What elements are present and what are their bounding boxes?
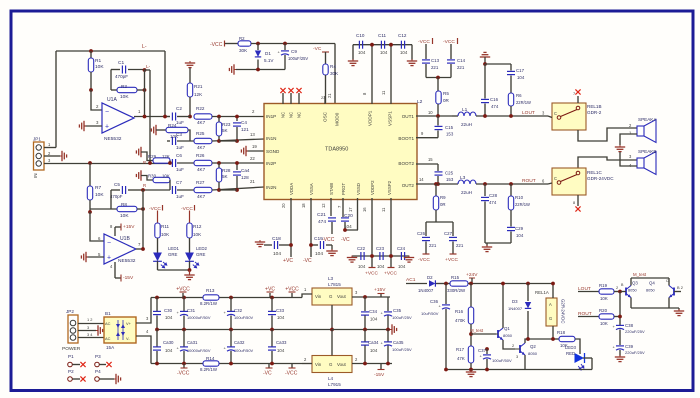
node R22 right [217, 115, 221, 119]
ground U1B pin5 [86, 256, 104, 258]
svg-text:C34: C34 [369, 309, 378, 314]
svg-text:12K: 12K [194, 92, 203, 97]
wire JP1 pin2 to ground [44, 155, 60, 157]
svg-text:0R: 0R [440, 202, 446, 207]
svg-text:153: 153 [446, 177, 454, 182]
svg-text:C17: C17 [516, 68, 525, 73]
svg-text:IN: IN [33, 173, 38, 178]
capacitor C24 [400, 252, 402, 260]
svg-text:220uF/25V: 220uF/25V [625, 350, 645, 355]
ground driver [470, 370, 472, 372]
svg-text:R11: R11 [161, 224, 170, 229]
resistor R6 [508, 93, 513, 106]
svg-text:21: 21 [250, 179, 255, 184]
svg-text:8.2R/1W: 8.2R/1W [200, 301, 218, 306]
svg-text:23: 23 [321, 95, 325, 100]
svg-text:VSSP2: VSSP2 [387, 180, 392, 195]
svg-text:12K: 12K [162, 154, 170, 159]
wire mid rail extension [332, 329, 390, 331]
ground C16/C17 top [480, 52, 490, 57]
resistor R24 [166, 127, 188, 132]
svg-text:8.2R/1W: 8.2R/1W [200, 367, 218, 372]
node M_test [469, 332, 473, 336]
svg-text:LED2: LED2 [196, 246, 207, 251]
svg-text:R28: R28 [222, 168, 231, 173]
ground R24 [151, 125, 158, 135]
capacitor C6 [171, 159, 173, 167]
svg-text:+VCC: +VCC [285, 287, 299, 293]
inductor L3 out [458, 180, 476, 184]
capacitor C32 [229, 296, 233, 300]
svg-text:VDDP1: VDDP1 [368, 110, 373, 126]
wire LED to ground rail [525, 369, 592, 371]
power flag +15V [380, 294, 382, 298]
svg-text:NC: NC [289, 112, 294, 118]
svg-text:C12: C12 [398, 33, 407, 38]
svg-text:100uF/25V: 100uF/25V [392, 315, 412, 320]
svg-text:10K: 10K [600, 321, 608, 326]
svg-text:474: 474 [491, 104, 499, 109]
svg-text:C36: C36 [430, 299, 439, 304]
power flag +VCC below VDDP2 [369, 267, 376, 269]
wire JP2 pin3 to B1 [78, 337, 104, 339]
resistor R10 [509, 182, 513, 186]
svg-text:−: − [105, 109, 109, 116]
svg-text:12: 12 [321, 203, 326, 208]
capacitor C12 [400, 41, 402, 49]
svg-text:C7: C7 [176, 180, 182, 185]
svg-text:C37: C37 [478, 348, 487, 353]
svg-text:Q3: Q3 [632, 281, 638, 286]
svg-text:U1B: U1B [120, 236, 130, 242]
svg-text:IN1N: IN1N [266, 136, 276, 141]
resistor R15 [450, 281, 468, 286]
svg-text:SPEAKA: SPEAKA [638, 117, 657, 122]
wire L4 Vout -15V [352, 363, 392, 365]
resistor R30 [136, 170, 143, 180]
resistor R29 [136, 147, 143, 157]
wire input drop to JP1 [55, 51, 57, 148]
power flag -VCC rail [183, 364, 185, 369]
wire JP1 pin3 row C [44, 163, 170, 165]
svg-text:221: 221 [431, 65, 439, 70]
pin 1 output wire [134, 116, 170, 118]
svg-text:REL1C: REL1C [587, 170, 602, 175]
svg-text:4K7: 4K7 [197, 120, 206, 125]
svg-text:30K: 30K [239, 48, 248, 53]
svg-text:104: 104 [377, 264, 385, 269]
power flag +VC rail mid [269, 293, 271, 298]
wire C19 right to ground [326, 244, 332, 246]
speaker SPEAKA [637, 126, 644, 136]
wire to L3 Vin [302, 294, 312, 298]
svg-text:-VCC: -VCC [418, 39, 430, 45]
wire to L4 Vin [302, 363, 312, 365]
svg-text:M_test: M_test [470, 328, 484, 333]
svg-text:474: 474 [489, 200, 497, 205]
resistor R27 [194, 187, 212, 192]
svg-text:C33: C33 [276, 308, 285, 313]
svg-text:R17: R17 [456, 347, 465, 352]
svg-text:-VCC: -VCC [418, 257, 430, 263]
capacitor C16 [484, 64, 486, 99]
svg-text:5K: 5K [222, 174, 229, 179]
svg-text:JP1: JP1 [33, 137, 41, 142]
wire top cap rail [353, 44, 412, 46]
svg-text:104: 104 [398, 264, 406, 269]
svg-text:100uF/50V: 100uF/50V [234, 348, 254, 353]
svg-text:L3: L3 [328, 276, 334, 281]
svg-text:GRE: GRE [196, 252, 206, 257]
svg-text:R19: R19 [599, 283, 608, 288]
svg-text:BOOT1: BOOT1 [398, 136, 414, 141]
wire B1 V+ to top rail [136, 298, 151, 324]
svg-text:10K: 10K [161, 232, 170, 237]
node IN1N junction [217, 139, 221, 143]
ground Q4 [678, 308, 680, 310]
svg-text:10: 10 [428, 110, 433, 115]
svg-text:R8: R8 [121, 202, 127, 207]
svg-text:+24V: +24V [466, 272, 478, 278]
wire mid rail end [330, 328, 334, 332]
node row C [148, 161, 152, 165]
svg-text:3 4: 3 4 [87, 332, 93, 337]
ground C39 [615, 355, 625, 362]
svg-text:R21: R21 [194, 84, 203, 89]
svg-text:Ca4: Ca4 [241, 168, 250, 173]
svg-text:104: 104 [277, 348, 285, 353]
svg-text:STABI: STABI [329, 183, 334, 195]
svg-text:VSSA: VSSA [309, 183, 314, 195]
svg-text:220uF/25V: 220uF/25V [625, 329, 645, 334]
wire BOOT2 [416, 163, 438, 165]
capacitor C25 [437, 164, 439, 171]
wire BOOT1 [416, 137, 438, 139]
wire OUT1 [416, 115, 452, 117]
svg-text:4K7: 4K7 [197, 167, 206, 172]
wire JP1 pin1 [44, 147, 56, 149]
svg-text:C: C [554, 111, 557, 116]
svg-text:22R/1W: 22R/1W [515, 202, 530, 207]
svg-text:L-: L- [146, 64, 151, 70]
svg-text:+: + [105, 124, 109, 131]
svg-text:10K: 10K [120, 94, 129, 100]
svg-text:1N4007: 1N4007 [418, 288, 434, 293]
ground C10 rail left [352, 45, 354, 60]
ground rail driver [446, 369, 525, 371]
LED LED1 [153, 253, 162, 262]
wire JP2 pin2 to ground [78, 330, 96, 332]
resistor R25 [194, 138, 212, 143]
wire coil bottom [552, 326, 554, 339]
wire Q4 base [674, 291, 681, 293]
svg-text:+VC: +VC [265, 287, 275, 293]
svg-text:104: 104 [370, 348, 378, 353]
svg-text:8050: 8050 [646, 288, 656, 293]
capacitor C9 [283, 42, 287, 46]
capacitor Ca4 [236, 163, 238, 170]
svg-text:C10: C10 [356, 33, 365, 38]
regulator L4 L7915 [312, 356, 352, 373]
svg-text:OSC: OSC [323, 111, 328, 122]
IC U2 TDA8950 [264, 104, 417, 200]
svg-text:104: 104 [165, 348, 173, 353]
ground JP2 rotated [96, 325, 103, 335]
wire Q1 emitter to Q2 base [503, 340, 515, 349]
svg-text:C: C [666, 279, 669, 283]
svg-text:C9: C9 [291, 49, 297, 54]
svg-text:C30: C30 [164, 308, 173, 313]
svg-text:221: 221 [457, 65, 465, 70]
svg-text:IN1P: IN1P [266, 114, 276, 119]
svg-text:GDR-2: GDR-2 [587, 110, 602, 115]
svg-text:NC: NC [297, 112, 302, 118]
svg-text:C15: C15 [445, 125, 454, 130]
svg-text:470pF: 470pF [110, 194, 123, 199]
svg-text:Q1: Q1 [504, 326, 510, 331]
svg-text:IN2P: IN2P [266, 161, 276, 166]
svg-text:-VCC: -VCC [181, 206, 193, 212]
svg-text:104: 104 [358, 50, 366, 55]
svg-text:10K: 10K [95, 192, 104, 198]
svg-text:RED: RED [566, 351, 575, 356]
resistor R19 [578, 291, 599, 293]
wire LOUT to relay [548, 116, 552, 118]
svg-text:R6: R6 [516, 93, 522, 98]
svg-text:8050: 8050 [503, 333, 513, 338]
svg-text:-VC: -VC [313, 46, 322, 52]
svg-text:AC1: AC1 [406, 277, 416, 283]
svg-text:LED3: LED3 [565, 345, 576, 350]
svg-text:1uF: 1uF [176, 194, 184, 199]
svg-text:+15V: +15V [123, 224, 135, 230]
svg-text:GRE: GRE [168, 252, 178, 257]
svg-text:AC: AC [105, 321, 111, 326]
resistor R18 [553, 338, 559, 340]
capacitor Ca34 [364, 330, 366, 342]
capacitor Ca35 [387, 330, 389, 342]
svg-text:330R/2W: 330R/2W [447, 288, 466, 293]
power flag -VCC rail right [291, 364, 293, 369]
svg-text:104: 104 [380, 50, 388, 55]
capacitor C17 [485, 63, 511, 65]
wire mid rail [157, 329, 332, 331]
wire emitters [630, 298, 632, 309]
node top of R1 [89, 49, 93, 53]
diode D1 zener [256, 42, 260, 46]
svg-text:104: 104 [315, 251, 323, 257]
ground C12 rail right [411, 45, 413, 60]
svg-text:1uF: 1uF [176, 167, 184, 172]
svg-text:P3: P3 [95, 354, 101, 359]
svg-text:5K: 5K [222, 128, 229, 133]
svg-text:C21: C21 [317, 212, 326, 218]
wire VSSP2 riser [390, 198, 392, 267]
svg-text:11: 11 [381, 207, 386, 212]
svg-text:22uH: 22uH [461, 122, 472, 127]
NC pin stubs with X [282, 93, 284, 104]
svg-text:LOUT: LOUT [522, 110, 535, 116]
svg-text:1N4007: 1N4007 [508, 306, 523, 311]
svg-text:5.1V: 5.1V [264, 58, 274, 63]
node C2/R22 [188, 115, 192, 119]
svg-text:121: 121 [241, 127, 249, 132]
LED LED3 [575, 353, 585, 363]
svg-text:C6: C6 [176, 153, 182, 158]
ground U1A pin3 [84, 125, 102, 127]
capacitor C5 [111, 189, 120, 191]
wire C22 chain [352, 255, 409, 257]
wire L4 G [331, 330, 333, 356]
svg-text:NC: NC [281, 112, 286, 118]
svg-text:Q2: Q2 [530, 344, 536, 349]
svg-text:R25: R25 [196, 131, 205, 136]
svg-text:C5: C5 [114, 182, 120, 187]
ground R21 [185, 61, 195, 68]
wire R1 to U1A pin2 [91, 90, 102, 110]
wire L- top [56, 50, 165, 52]
node feedback top [143, 68, 147, 72]
svg-text:22uH: 22uH [461, 190, 472, 195]
svg-text:PROT: PROT [341, 183, 346, 195]
svg-text:+VCC: +VCC [176, 287, 190, 293]
svg-text:C22: C22 [357, 246, 366, 251]
svg-text:4K7: 4K7 [197, 194, 206, 199]
svg-text:C1: C1 [118, 60, 124, 66]
resistor R2 [238, 41, 251, 46]
capacitor C1 [111, 69, 120, 71]
svg-text:22R/1W: 22R/1W [516, 100, 531, 105]
wire L- drop to C2 [165, 51, 170, 117]
svg-text:C25: C25 [445, 171, 454, 176]
svg-text:17: 17 [348, 207, 353, 212]
transistor Q3 [625, 288, 627, 296]
svg-text:21: 21 [327, 93, 332, 98]
resistor R9 [434, 182, 438, 186]
svg-text:+VC: +VC [283, 258, 293, 264]
resistor R21 [187, 83, 192, 97]
node output [143, 115, 147, 119]
svg-text:-VCC: -VCC [149, 206, 161, 212]
wire base Q1 [471, 333, 496, 335]
ground JP1 [60, 151, 67, 161]
capacitor C7 [143, 189, 170, 191]
svg-text:1 2: 1 2 [87, 317, 92, 322]
svg-text:10000uF/50V: 10000uF/50V [187, 315, 211, 320]
resistor R11 [155, 223, 160, 238]
svg-text:10K: 10K [600, 296, 608, 301]
svg-text:IN2N: IN2N [266, 185, 276, 190]
svg-text:B 2: B 2 [677, 285, 683, 290]
wire Q1 collector [502, 284, 504, 329]
svg-text:BOOT2: BOOT2 [398, 161, 414, 166]
svg-text:Ca33: Ca33 [276, 340, 287, 345]
svg-text:15: 15 [428, 157, 433, 162]
capacitor C15 [437, 116, 439, 126]
svg-text:POWER: POWER [62, 346, 81, 352]
capacitor C10 [358, 41, 360, 49]
svg-text:470pF: 470pF [115, 74, 128, 79]
svg-text:R1: R1 [95, 58, 101, 64]
wire VSSP1 riser [390, 45, 392, 104]
LED LED2 [185, 253, 194, 262]
wire L3 Vout +15V [352, 296, 390, 298]
wire B1 V- to bottom rail [136, 336, 151, 364]
node IN2N junction [217, 188, 221, 192]
svg-text:-VC: -VC [341, 237, 350, 243]
svg-text:REL1B: REL1B [587, 104, 602, 109]
svg-text:-15V: -15V [374, 372, 385, 378]
svg-text:Ca30: Ca30 [163, 340, 174, 345]
ground SGND [246, 150, 264, 152]
svg-text:1uF: 1uF [176, 145, 184, 150]
ground 15V mid rotated [390, 324, 397, 334]
wire C13/C14 join [426, 77, 451, 79]
capacitor C28 [483, 182, 487, 186]
svg-text:R29: R29 [148, 154, 157, 159]
svg-text:8050: 8050 [528, 351, 538, 356]
svg-text:C2: C2 [176, 106, 182, 111]
OSC pin stub [324, 96, 326, 104]
wire U1B feedback vertical [142, 190, 144, 249]
svg-text:AC: AC [105, 336, 111, 341]
power flag +VCC rail right [291, 293, 293, 298]
svg-text:+VCC: +VCC [365, 271, 379, 277]
svg-text:Vout: Vout [337, 294, 347, 299]
svg-text:47K: 47K [457, 356, 465, 361]
wire C5 left leg [110, 190, 112, 209]
svg-text:10K: 10K [95, 64, 104, 70]
svg-text:P4: P4 [95, 369, 101, 374]
capacitor Ca30 [156, 330, 158, 347]
svg-text:C24: C24 [397, 246, 406, 251]
svg-text:R23: R23 [222, 122, 231, 127]
svg-text:1uF: 1uF [176, 120, 184, 125]
capacitor C4 [236, 117, 238, 122]
bridge rectifier B1 [104, 317, 136, 343]
svg-text:-VCC: -VCC [177, 371, 190, 377]
svg-text:C3: C3 [176, 132, 182, 137]
svg-text:100uF/50V: 100uF/50V [492, 358, 512, 363]
svg-text:L7915: L7915 [328, 382, 341, 387]
resistor R14 [203, 361, 219, 366]
svg-text:R10: R10 [515, 195, 524, 200]
capacitors C26 C27 [426, 221, 453, 223]
svg-text:104: 104 [273, 251, 281, 257]
svg-text:L-: L- [142, 44, 147, 50]
svg-text:104: 104 [277, 315, 285, 320]
power flag +VCC below VSSP2 [388, 267, 395, 269]
svg-text:P2: P2 [68, 369, 74, 374]
svg-text:C14: C14 [457, 58, 466, 63]
svg-text:SGND: SGND [266, 149, 280, 154]
relay REL1B top pin X [577, 96, 579, 103]
ground C18 [255, 240, 265, 247]
svg-text:18: 18 [301, 203, 306, 208]
resistor R5 [437, 78, 439, 92]
svg-text:10K: 10K [120, 213, 129, 219]
capacitor C3 [171, 137, 173, 145]
svg-text:-VC: -VC [263, 371, 272, 377]
op-amp U1B [104, 234, 136, 264]
capacitor C39 [616, 345, 624, 347]
resistor R23 [218, 117, 220, 123]
svg-text:R22: R22 [196, 106, 205, 111]
svg-text:V+: V+ [126, 321, 132, 326]
node R1 bottom [89, 88, 93, 92]
svg-text:TDA8950: TDA8950 [325, 147, 348, 153]
svg-text:C39: C39 [625, 344, 634, 349]
